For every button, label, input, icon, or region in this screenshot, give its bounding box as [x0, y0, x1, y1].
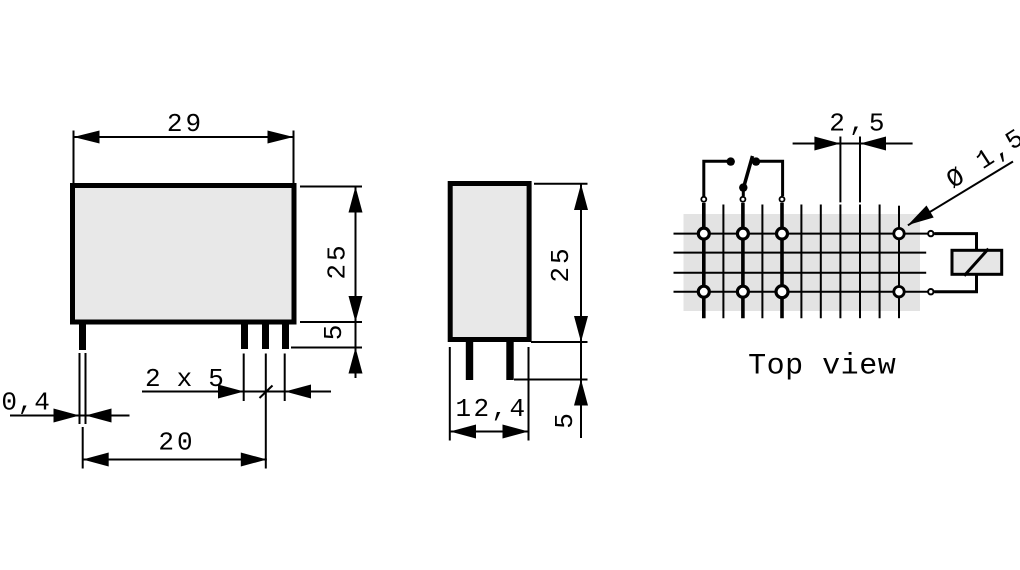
svg-text:2 x 5: 2 x 5 — [145, 364, 224, 394]
svg-text:29: 29 — [167, 109, 204, 139]
svg-text:Top view: Top view — [748, 350, 896, 384]
svg-text:20: 20 — [158, 428, 195, 458]
svg-text:0,4: 0,4 — [1, 388, 50, 418]
svg-text:5: 5 — [319, 325, 349, 341]
svg-text:5: 5 — [550, 413, 580, 429]
svg-text:12,4: 12,4 — [455, 394, 527, 424]
svg-text:Ø 1,5: Ø 1,5 — [941, 122, 1020, 195]
svg-text:2,5: 2,5 — [829, 109, 888, 139]
svg-text:25: 25 — [546, 245, 576, 282]
svg-text:25: 25 — [323, 242, 353, 279]
